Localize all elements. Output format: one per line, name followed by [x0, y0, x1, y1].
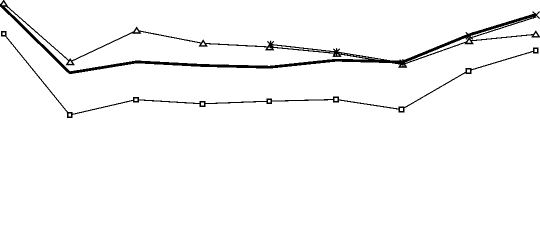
triangle marker 6 — [334, 51, 341, 56]
square marker 7 — [399, 107, 403, 111]
triangle marker 9 — [532, 32, 539, 37]
square marker 9 — [534, 48, 538, 52]
thick series line — [0, 4, 536, 73]
square marker 2 — [68, 113, 72, 117]
star marker 1 — [267, 41, 273, 49]
star marker 3 — [400, 59, 406, 67]
x marker 1 — [466, 32, 473, 39]
triangle marker 4 — [200, 41, 207, 46]
x marker 2 — [533, 12, 540, 19]
star marker 2 — [333, 48, 339, 56]
square series line — [4, 34, 536, 115]
star series line — [271, 45, 403, 63]
triangle marker 5 — [266, 44, 273, 49]
square marker 8 — [466, 69, 470, 73]
triangle marker 3 — [133, 28, 140, 33]
square marker 6 — [334, 97, 338, 101]
thin line under thick (right segment) — [469, 17, 536, 38]
square marker 5 — [267, 99, 271, 103]
triangle marker 7 — [399, 62, 406, 67]
triangle marker 8 — [466, 38, 473, 43]
triangle series line — [4, 4, 536, 65]
square marker 4 — [200, 102, 204, 106]
square marker 3 — [134, 98, 138, 102]
triangle marker 2 — [67, 59, 74, 64]
square marker 1 — [2, 32, 6, 36]
triangle marker 1 — [0, 1, 7, 6]
